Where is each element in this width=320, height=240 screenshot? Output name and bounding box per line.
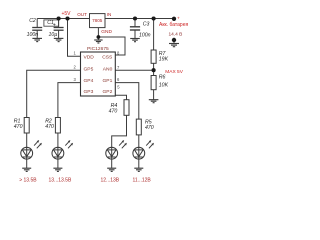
wire pin6 GP1 to R5 (115, 83, 139, 120)
junction node MAX 5V (152, 68, 156, 72)
ground LED2 (53, 168, 62, 171)
svg-text:14.4 В: 14.4 В (169, 32, 183, 38)
wire 7805 GND stub (97, 28, 99, 40)
wire LED4 to ground (138, 159, 140, 168)
svg-text:470: 470 (45, 124, 54, 130)
resistor R4 (124, 100, 129, 116)
junction node C3 (133, 16, 137, 20)
wire pin2 GP5 to R1 (27, 70, 81, 117)
wire VDD pin1 (68, 19, 81, 57)
junction node battery + (172, 17, 176, 21)
junction node VDD (65, 16, 69, 20)
wire pin5 GP2 to R4 (115, 95, 126, 99)
svg-text:Акк. батарея: Акк. батарея (159, 22, 188, 28)
wire battery minus stub (173, 40, 175, 43)
wire R7 to node (153, 63, 155, 75)
svg-text:MAX 5V: MAX 5V (165, 69, 183, 75)
svg-text:> 13.5В: > 13.5В (19, 177, 37, 183)
resistor R7 (151, 50, 156, 63)
svg-text:GP3: GP3 (84, 89, 94, 95)
resistor R5 (136, 119, 141, 135)
wire R1 to LED1 (26, 133, 28, 148)
junction node +5V / C1 (57, 16, 61, 20)
wire R4 to LED3 (112, 115, 127, 147)
ground 7805 (94, 40, 102, 43)
IC U1 PIC12675 (81, 52, 116, 96)
LED HL4 (133, 140, 154, 159)
svg-text:13...13.5В: 13...13.5В (49, 177, 72, 183)
wire R2 to LED2 (57, 133, 59, 148)
svg-text:+: + (53, 23, 56, 29)
wire +5V rail left (37, 18, 89, 20)
wire LED1 to ground (26, 159, 28, 168)
LED HL1 (21, 140, 42, 159)
ground R6 (149, 100, 159, 103)
resistor R2 (55, 118, 60, 134)
LED HL3 (106, 140, 127, 159)
svg-text:19K: 19K (159, 57, 169, 63)
ground battery (169, 44, 179, 47)
svg-text:C2: C2 (29, 18, 36, 24)
capacitor C1 (54, 19, 64, 39)
capacitor C3 (130, 19, 140, 39)
svg-text:100n: 100n (139, 32, 151, 38)
svg-text:AN0: AN0 (103, 66, 113, 72)
svg-text:IN: IN (107, 12, 112, 17)
ground C1 (54, 38, 64, 41)
regulator U2 7805 (90, 14, 106, 28)
svg-text:10K: 10K (159, 82, 169, 88)
svg-text:GND: GND (101, 29, 112, 35)
ground LED1 (22, 168, 31, 171)
svg-text:470: 470 (109, 109, 118, 115)
capacitor C2 (32, 19, 42, 39)
svg-text:11...12В: 11...12В (133, 177, 152, 183)
junction node battery gnd (172, 38, 176, 42)
resistor R6 (151, 76, 156, 90)
svg-text:7805: 7805 (92, 18, 103, 23)
svg-text:GP4: GP4 (84, 78, 94, 84)
ground C2 (32, 38, 42, 41)
wire R6 to ground (153, 90, 155, 100)
svg-text:PIC12675: PIC12675 (87, 46, 109, 52)
wire R5 to LED4 (138, 135, 140, 148)
LED HL2 (52, 140, 73, 159)
wire LED3 to ground (111, 159, 113, 168)
ground LED4 (134, 168, 143, 171)
wire LED2 to ground (57, 159, 59, 168)
junction node 7805 gnd (97, 35, 101, 39)
junction node R7 (152, 16, 156, 20)
capacitor C1 frame (44, 20, 59, 26)
ground LED3 (107, 168, 116, 171)
wire rail to R7 (153, 19, 155, 51)
wire pin3 GP4 to R2 (58, 83, 81, 118)
svg-text:470: 470 (145, 125, 154, 131)
svg-text:R6: R6 (159, 75, 166, 81)
svg-text:GP2: GP2 (103, 89, 113, 95)
svg-text:10µ: 10µ (49, 32, 58, 38)
svg-text:OUT: OUT (77, 12, 87, 17)
wire pin7 AN0 to node (115, 69, 153, 71)
svg-text:C3: C3 (143, 22, 150, 28)
svg-text:VDD: VDD (84, 54, 95, 60)
ground C3 (130, 39, 140, 42)
svg-text:GP5: GP5 (84, 66, 94, 72)
resistor R1 (24, 118, 29, 134)
svg-text:100n: 100n (27, 32, 39, 38)
svg-text:470: 470 (14, 124, 23, 130)
wire pin8 to ground net (98, 37, 125, 55)
svg-text:12...13В: 12...13В (101, 177, 120, 183)
svg-text:+5V: +5V (61, 11, 71, 17)
svg-text:CSS: CSS (102, 54, 113, 60)
svg-text:GP1: GP1 (103, 78, 113, 84)
wire +5V rail right (105, 18, 174, 20)
